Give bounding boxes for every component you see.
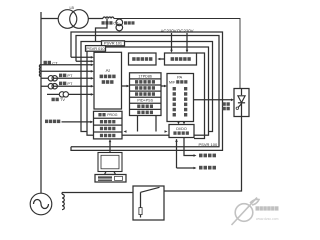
box work power board 工作电源板 [129, 53, 157, 65]
frame channel PSVR101 [81, 42, 213, 132]
wire system TV into AI [47, 93, 94, 96]
svg-text:LB: LB [70, 6, 75, 10]
svg-text:PA: PA [177, 75, 182, 80]
wire DC220V down arrow [186, 33, 189, 53]
svg-text:PT: PT [67, 73, 73, 78]
wire bus to excitation transformer [41, 18, 58, 20]
wire generator bus [40, 12, 42, 194]
label 输入信号 [199, 166, 216, 170]
svg-text:M/F: M/F [169, 80, 176, 84]
label 机端PT [59, 73, 73, 78]
wire stack down to bus line 2 [155, 116, 157, 132]
wire supply to work power arrow [157, 58, 164, 61]
frame channel PSVR010 [87, 47, 209, 135]
wire transformer to CT coil [88, 18, 103, 20]
label LB [70, 6, 75, 10]
PT 仪表PT [48, 84, 57, 89]
CT on generator bus (机端CT) [39, 65, 41, 77]
wire PA down to DI/DO 1 [177, 122, 180, 125]
wire bus tap 1 into AI [41, 64, 94, 67]
label 同步变 [124, 21, 135, 24]
svg-text:PSVR 100: PSVR 100 [199, 142, 218, 147]
wire monitor-stack to DI/DO arrows [124, 130, 168, 133]
wire PA to thyristor gate arrow [194, 99, 235, 102]
switch box with fuse [133, 186, 164, 220]
CT coil L1 on top wire [103, 17, 114, 19]
svg-text:PT: PT [67, 81, 73, 86]
box DI/DO board [169, 125, 194, 138]
box monitor control stack [94, 111, 123, 139]
svg-text:1TPD86: 1TPD86 [138, 74, 152, 78]
svg-text:PID+PSS: PID+PSS [137, 99, 153, 103]
label 系统TV [52, 97, 66, 102]
PT 机端PT [48, 76, 57, 81]
wire CT secondary into AI board [96, 19, 108, 53]
wire top run to right and down to thyristor [114, 19, 240, 89]
wire PT2 into AI [41, 85, 94, 88]
label AC220V DC220V [161, 29, 194, 34]
wire monitor up arrow [109, 139, 112, 152]
box AI analog signal board [94, 52, 122, 109]
frame PSVR100 outer [71, 36, 219, 147]
box supply board 电源供电板 [165, 53, 197, 65]
wire DI input signal [175, 139, 196, 169]
box PA pulse amplifier board [167, 74, 194, 122]
wire CT output 2 into AI [76, 60, 94, 63]
svg-text:DI/DO: DI/DO [176, 127, 187, 131]
svg-text:PSVR 101: PSVR 101 [104, 41, 122, 46]
svg-text:AC220V: AC220V [161, 29, 177, 34]
label 机端CT [44, 60, 59, 65]
wire stack down to bus line 1 [137, 116, 139, 132]
watermark dzsc logo [232, 198, 279, 226]
box regulator software stack [130, 73, 162, 116]
label 触发脉冲 [223, 102, 230, 110]
wire thyristor output down [164, 117, 242, 192]
label 显示操作 [45, 120, 60, 124]
svg-text:AI: AI [106, 68, 110, 73]
label PSVR 100 [199, 142, 218, 147]
wire DO output signal [184, 138, 197, 157]
label 励磁变CT [102, 21, 120, 25]
wire display-operate arrow into stack [62, 121, 94, 124]
label box PSVR 101 [102, 41, 125, 46]
frame channel inner step [194, 53, 205, 139]
wire PA down to DI/DO 2 [183, 122, 186, 125]
thyristor bridge [234, 89, 249, 117]
computer monitor [98, 153, 122, 175]
wire PT1 into AI [41, 77, 94, 80]
wire AI to stack arrow [122, 85, 130, 88]
computer case [95, 175, 126, 183]
wire stack to PA arrow [161, 85, 167, 88]
wire field winding to switch box [62, 192, 133, 194]
PT 系统TV [59, 92, 68, 97]
svg-text:DC220V: DC220V [177, 29, 193, 34]
wire CT output 1 into AI [71, 56, 94, 59]
svg-text:PROG: PROG [107, 113, 118, 117]
label box PSVR 010 [86, 46, 106, 52]
transformer LB (excitation transformer) [58, 10, 88, 29]
field winding [62, 193, 64, 210]
svg-text:PSVR 010: PSVR 010 [86, 46, 105, 51]
svg-text:TV: TV [60, 97, 65, 102]
svg-text:www.dzsc.com: www.dzsc.com [256, 217, 279, 221]
frame cabinet outer [71, 32, 223, 150]
generator [30, 193, 52, 215]
sync transformer (同步变) [116, 19, 123, 32]
wire AC220V down arrow [170, 33, 173, 53]
wire bus tap 2 into AI [41, 70, 94, 73]
label 仪表PT [59, 81, 73, 86]
label 输出信号 [199, 154, 216, 158]
